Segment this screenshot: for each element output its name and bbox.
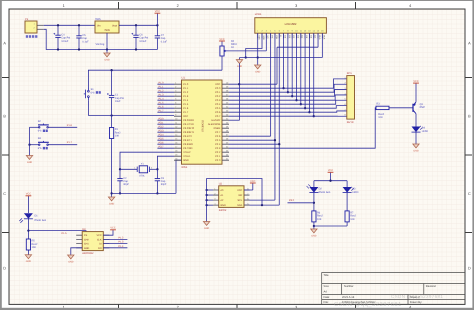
svg-text:P1.6: P1.6 bbox=[159, 105, 165, 108]
svg-text:2: 2 bbox=[151, 166, 152, 169]
svg-text:7: 7 bbox=[283, 30, 284, 33]
svg-text:WP: WP bbox=[238, 194, 242, 197]
svg-text:P0.1: P0.1 bbox=[215, 91, 221, 94]
svg-text:6*6: 6*6 bbox=[91, 91, 95, 94]
node P3.3 bbox=[159, 129, 165, 132]
wire VCC rail reset bbox=[88, 69, 222, 87]
wire 24C02 address pins to ground bbox=[205, 189, 213, 222]
svg-text:VCC: VCC bbox=[250, 180, 255, 183]
wire LCD E / 24C02 SDA bbox=[229, 33, 280, 206]
svg-text:4: 4 bbox=[409, 4, 411, 8]
svg-text:ALE/PROG: ALE/PROG bbox=[208, 123, 221, 126]
power VCC 24C02 bbox=[250, 180, 256, 183]
svg-text:Drawn By:: Drawn By: bbox=[410, 301, 423, 304]
wire net P3.1 bbox=[157, 123, 174, 125]
svg-text:33: 33 bbox=[226, 110, 228, 113]
svg-text:31: 31 bbox=[226, 118, 228, 121]
svg-text:File:: File: bbox=[324, 301, 329, 304]
wire 24C02 VCC bbox=[244, 183, 253, 190]
LED D4 bbox=[412, 126, 429, 133]
svg-text:10K: 10K bbox=[115, 135, 120, 138]
MCU part name vertical text bbox=[202, 119, 205, 131]
svg-text:9: 9 bbox=[175, 114, 176, 117]
node P3.2 bbox=[289, 199, 295, 202]
wire Q1 collector to LED bbox=[415, 114, 417, 127]
svg-text:GND: GND bbox=[255, 70, 260, 73]
svg-text:P3.6/WR: P3.6/WR bbox=[183, 143, 193, 146]
wire net P3.3 bbox=[157, 131, 174, 133]
svg-text:15: 15 bbox=[317, 30, 319, 33]
svg-text:EA/VPP: EA/VPP bbox=[211, 119, 220, 122]
LCD connector LCD1 LCD1602 bbox=[255, 13, 327, 40]
svg-text:ADC0832: ADC0832 bbox=[82, 252, 94, 255]
resistor R3 bbox=[376, 103, 389, 119]
svg-text:P1.4: P1.4 bbox=[118, 245, 124, 248]
title block bbox=[322, 272, 465, 304]
wire S1 to RST rail bbox=[88, 100, 174, 116]
svg-text:15: 15 bbox=[175, 138, 177, 141]
svg-text:P1.6: P1.6 bbox=[67, 124, 73, 127]
svg-text:VCC: VCC bbox=[219, 38, 224, 41]
svg-text:26: 26 bbox=[226, 138, 228, 141]
svg-text:P3.0/RXD: P3.0/RXD bbox=[183, 119, 194, 122]
wire net P1.6 bbox=[157, 107, 174, 109]
wire P1 to regulator input rail bbox=[44, 24, 95, 26]
svg-text:P1.0: P1.0 bbox=[159, 81, 165, 84]
wire regulator output rail bbox=[119, 24, 159, 26]
wire R1 to ground bbox=[110, 116, 112, 198]
node P1.7 bbox=[159, 109, 165, 112]
wire P0.2 to key pin 3 bbox=[229, 90, 347, 97]
wire LCD BLK to ground bbox=[240, 33, 323, 59]
wire ADC CLK bbox=[103, 238, 127, 240]
wire D1 to ADC CS bbox=[27, 219, 86, 239]
svg-text:P1.6: P1.6 bbox=[183, 107, 189, 110]
svg-text:1: 1 bbox=[257, 30, 258, 33]
wire LCD VO to pot bbox=[228, 33, 267, 51]
wire VCC rail sensors bbox=[314, 172, 347, 182]
power VCC photo sensor bbox=[26, 193, 32, 196]
svg-text:P3.1/TXD: P3.1/TXD bbox=[183, 123, 194, 126]
svg-text:P0.0: P0.0 bbox=[215, 87, 221, 90]
ground reset bbox=[108, 197, 114, 205]
capacitor C4 bbox=[53, 33, 70, 43]
svg-text:7805: 7805 bbox=[95, 18, 101, 21]
svg-text:P3.7/RD: P3.7/RD bbox=[183, 147, 192, 150]
svg-text:PNP: PNP bbox=[420, 106, 425, 109]
wire net P1.7 bbox=[157, 111, 174, 113]
svg-text:30pF: 30pF bbox=[161, 183, 167, 186]
svg-text:B: B bbox=[468, 115, 471, 119]
svg-text:1: 1 bbox=[175, 82, 176, 85]
node P1.1 bbox=[159, 85, 165, 88]
power VCC main bbox=[155, 10, 161, 13]
svg-text:U2: U2 bbox=[219, 182, 223, 185]
svg-text:VCC: VCC bbox=[155, 10, 160, 13]
wire C5 bbox=[78, 24, 80, 50]
node P1.4 bbox=[159, 97, 165, 100]
wire ADC DI bbox=[103, 243, 127, 245]
wire LED D4 to ground bbox=[415, 132, 417, 144]
svg-text:Title: Title bbox=[324, 274, 329, 277]
svg-text:LED0: LED0 bbox=[422, 130, 429, 133]
svg-text:5: 5 bbox=[274, 30, 275, 33]
wire MCU VCC pin bbox=[229, 83, 277, 85]
wire LCD D4 to P0.4 bbox=[300, 33, 302, 105]
regulator U1 7805 bbox=[95, 18, 119, 46]
svg-text:12: 12 bbox=[304, 30, 306, 33]
wire net P1.1 bbox=[157, 87, 174, 89]
svg-text:DI: DI bbox=[99, 243, 102, 246]
wire XTAL2 bbox=[119, 152, 174, 170]
node P3.7 bbox=[159, 145, 165, 148]
svg-text:P1.5: P1.5 bbox=[62, 232, 68, 235]
wire Q1 base drive from P2.3 bbox=[229, 108, 376, 148]
wire crystal ground rail bbox=[112, 192, 176, 194]
ground sensors bbox=[311, 229, 317, 237]
svg-text:P1.3: P1.3 bbox=[118, 241, 124, 244]
node P3.0 bbox=[159, 117, 165, 120]
svg-text:P3.0: P3.0 bbox=[159, 117, 165, 120]
node P1.7 bbox=[67, 141, 73, 144]
wire R6 to ground rail bbox=[313, 222, 347, 229]
ADC U3 ADC0832 bbox=[76, 228, 109, 255]
svg-text:P1.2: P1.2 bbox=[159, 89, 165, 92]
svg-text:10K: 10K bbox=[317, 218, 322, 221]
svg-text:2023-5-18: 2023-5-18 bbox=[342, 296, 355, 299]
LED D3 bbox=[343, 181, 359, 194]
wire P0.7 to key pin 8 bbox=[229, 115, 347, 117]
svg-text:2: 2 bbox=[175, 86, 176, 89]
svg-text:30pF: 30pF bbox=[123, 183, 129, 186]
svg-text:1K: 1K bbox=[231, 46, 234, 49]
svg-text:CS: CS bbox=[84, 234, 88, 237]
wire C7 bbox=[156, 25, 158, 49]
ground LCD backlight bbox=[236, 60, 242, 68]
svg-text:CH0: CH0 bbox=[84, 238, 89, 241]
wire buttons ground rail bbox=[29, 127, 31, 155]
node P1.0 bbox=[159, 81, 165, 84]
svg-text:LED0: LED0 bbox=[352, 191, 359, 194]
connector P1 bbox=[25, 18, 44, 38]
svg-text:18: 18 bbox=[175, 150, 177, 153]
svg-text:P3.4: P3.4 bbox=[159, 133, 165, 136]
svg-text:25: 25 bbox=[226, 142, 228, 145]
svg-text:7805: 7805 bbox=[104, 29, 110, 32]
capacitor C1 bbox=[107, 93, 124, 103]
svg-text:24C02: 24C02 bbox=[219, 209, 227, 212]
svg-text:22: 22 bbox=[226, 154, 228, 157]
wire S2 to net P1.6 bbox=[30, 126, 78, 128]
svg-text:GND: GND bbox=[204, 227, 209, 230]
svg-text:GND: GND bbox=[104, 58, 109, 61]
wire D2 to node P3.2 bbox=[288, 193, 316, 211]
power VCC sensors bbox=[328, 169, 334, 172]
svg-text:10: 10 bbox=[175, 118, 177, 121]
svg-text:P2.5: P2.5 bbox=[215, 139, 221, 142]
svg-text:PSEN: PSEN bbox=[214, 127, 221, 130]
svg-text:7: 7 bbox=[175, 106, 176, 109]
wire ADC DO bbox=[103, 247, 127, 249]
svg-text:SDA: SDA bbox=[237, 204, 242, 207]
svg-text:P2.4: P2.4 bbox=[215, 143, 221, 146]
capacitor C5 bbox=[76, 34, 89, 43]
svg-text:P3.2/INT0: P3.2/INT0 bbox=[183, 127, 195, 130]
svg-text:14: 14 bbox=[313, 30, 315, 33]
svg-text:0.1uF: 0.1uF bbox=[82, 40, 89, 43]
svg-text:1: 1 bbox=[63, 4, 65, 8]
svg-text:34: 34 bbox=[226, 106, 228, 109]
capacitor C7 bbox=[155, 34, 168, 43]
EEPROM U2 24C02 bbox=[213, 182, 250, 212]
wire net P3.7 bbox=[157, 147, 174, 149]
wire MCU GND pin bbox=[176, 160, 182, 193]
svg-text:P2.6: P2.6 bbox=[215, 135, 221, 138]
wire regulator ground pin bbox=[106, 33, 108, 53]
svg-text:P2.1: P2.1 bbox=[215, 155, 221, 158]
wire EA tie to VCC bbox=[229, 64, 240, 121]
svg-text:28: 28 bbox=[226, 130, 228, 133]
wire LCD RS to P2.6 bbox=[229, 33, 271, 136]
svg-text:P3.6: P3.6 bbox=[159, 141, 165, 144]
svg-text:LCD1: LCD1 bbox=[255, 13, 262, 16]
svg-text:30: 30 bbox=[226, 122, 228, 125]
resistor R7 bbox=[345, 211, 357, 222]
svg-text:9: 9 bbox=[292, 30, 293, 33]
svg-text:P2.0: P2.0 bbox=[215, 159, 221, 162]
svg-text:10K: 10K bbox=[32, 246, 37, 249]
potentiometer R2 RPot 1K bbox=[220, 40, 237, 70]
wire net P1.2 bbox=[157, 91, 174, 93]
svg-text:4: 4 bbox=[345, 92, 346, 95]
wire R5 to ground bbox=[27, 250, 29, 255]
resistor R5 bbox=[26, 239, 38, 250]
svg-text:P0.5: P0.5 bbox=[215, 107, 221, 110]
svg-text:P1.2: P1.2 bbox=[183, 91, 189, 94]
wire net P1.0 bbox=[157, 83, 174, 85]
svg-text:100uF: 100uF bbox=[139, 40, 147, 43]
svg-text:27: 27 bbox=[226, 134, 228, 137]
svg-text:XTAL2: XTAL2 bbox=[183, 151, 191, 154]
wire R7 to ground rail bbox=[346, 222, 348, 226]
svg-text:38: 38 bbox=[226, 90, 228, 93]
svg-text:C: C bbox=[3, 192, 6, 196]
svg-text:1: 1 bbox=[345, 76, 346, 79]
svg-text:P1.5: P1.5 bbox=[183, 103, 189, 106]
wire C1 bbox=[111, 70, 113, 115]
svg-text:GND: GND bbox=[220, 204, 226, 207]
svg-text:0.1uF: 0.1uF bbox=[161, 40, 168, 43]
wire LCD D3 to P0.3 bbox=[295, 33, 297, 101]
svg-text:6: 6 bbox=[345, 103, 346, 106]
svg-text:XTAL: XTAL bbox=[139, 175, 145, 178]
wire net P3.0 bbox=[157, 119, 174, 121]
svg-text:29: 29 bbox=[226, 126, 228, 129]
wire VCC riser bbox=[156, 13, 158, 25]
wire LCD VSS to ground bbox=[257, 33, 259, 65]
svg-text:Vout: Vout bbox=[112, 24, 117, 27]
svg-text:P3.5: P3.5 bbox=[159, 137, 165, 140]
node P1.3 bbox=[159, 93, 165, 96]
svg-text:GND: GND bbox=[27, 161, 32, 164]
node P1.5 bbox=[159, 101, 165, 104]
MCU U1 8051 bbox=[174, 77, 229, 169]
svg-text:P3.1: P3.1 bbox=[159, 121, 165, 124]
wire C3 bbox=[156, 169, 158, 194]
svg-text:8051: 8051 bbox=[182, 166, 188, 169]
svg-text:10: 10 bbox=[295, 30, 297, 33]
svg-text:4: 4 bbox=[175, 94, 176, 97]
svg-text:2: 2 bbox=[177, 4, 179, 8]
wire XTAL1 bbox=[156, 156, 174, 170]
wire P0.3 to key pin 4 bbox=[229, 95, 347, 100]
svg-text:10K: 10K bbox=[378, 116, 383, 119]
svg-text:100uF: 100uF bbox=[61, 40, 69, 43]
node P1.2 bbox=[159, 89, 165, 92]
svg-text:A4: A4 bbox=[324, 291, 328, 294]
svg-text:U3: U3 bbox=[82, 228, 86, 231]
wire LCD D1 to P0.1 bbox=[287, 33, 289, 93]
svg-text:8: 8 bbox=[175, 110, 176, 113]
node P1.5 label on CS wire bbox=[62, 232, 68, 235]
switch S1 reset button bbox=[84, 88, 101, 101]
wire ADC GND pin bbox=[71, 248, 82, 255]
svg-text:KP1: KP1 bbox=[347, 72, 352, 75]
svg-text:P1.4: P1.4 bbox=[159, 97, 165, 100]
wire C6 bbox=[135, 25, 137, 50]
resistor R1 bbox=[110, 128, 122, 139]
power VCC Q1 bbox=[413, 80, 419, 83]
svg-text:P3.3: P3.3 bbox=[159, 129, 165, 132]
svg-text:P1.1: P1.1 bbox=[183, 87, 189, 90]
svg-text:P3.5/T1: P3.5/T1 bbox=[183, 139, 192, 142]
wire net P1.3 bbox=[157, 95, 174, 97]
svg-text:P0.3: P0.3 bbox=[215, 99, 221, 102]
svg-text:P1: P1 bbox=[25, 18, 29, 21]
svg-text:P3.7: P3.7 bbox=[159, 145, 165, 148]
svg-text:GND: GND bbox=[84, 247, 90, 250]
svg-text:P1.0: P1.0 bbox=[183, 83, 189, 86]
svg-text:6*6: 6*6 bbox=[38, 130, 42, 133]
svg-text:4: 4 bbox=[270, 30, 271, 33]
svg-text:C: C bbox=[468, 192, 471, 196]
wire R3 to base bbox=[389, 107, 413, 109]
svg-text:CSDN @qq_52397681: CSDN @qq_52397681 bbox=[391, 294, 443, 299]
svg-text:P1.2: P1.2 bbox=[118, 236, 124, 239]
svg-text:P0.4: P0.4 bbox=[215, 103, 221, 106]
svg-text:GND: GND bbox=[183, 159, 189, 162]
svg-text:CLK: CLK bbox=[97, 238, 102, 241]
svg-text:17: 17 bbox=[175, 146, 177, 149]
power VCC pot bbox=[219, 38, 225, 41]
wire VCC photodiode D1 bbox=[27, 196, 29, 213]
node P3.2 bbox=[159, 125, 165, 128]
wire net P3.6 bbox=[157, 143, 174, 145]
ground photo sensor bbox=[25, 255, 31, 263]
node P1.3 bbox=[118, 241, 124, 244]
svg-text:P3.2: P3.2 bbox=[289, 199, 295, 202]
svg-text:Photo Sen: Photo Sen bbox=[35, 219, 47, 222]
svg-text:XTAL1: XTAL1 bbox=[183, 155, 191, 158]
svg-text:CSDN @qq_52397681: CSDN @qq_52397681 bbox=[334, 301, 402, 308]
svg-text:DO: DO bbox=[98, 247, 102, 250]
svg-text:P0.2: P0.2 bbox=[215, 95, 221, 98]
wire net P3.5 bbox=[157, 139, 174, 141]
svg-text:VCC: VCC bbox=[215, 83, 220, 86]
svg-text:P1.3: P1.3 bbox=[183, 95, 189, 98]
node P3.4 bbox=[159, 133, 165, 136]
wire P0.1 to key pin 2 bbox=[229, 84, 347, 92]
svg-text:P0.7: P0.7 bbox=[215, 115, 221, 118]
svg-text:13: 13 bbox=[175, 130, 177, 133]
svg-text:Revision: Revision bbox=[426, 285, 437, 288]
svg-text:GND: GND bbox=[68, 260, 73, 263]
svg-text:16: 16 bbox=[175, 142, 177, 145]
capacitor C3 bbox=[155, 177, 167, 186]
ground key buttons bbox=[26, 156, 32, 164]
svg-text:12: 12 bbox=[175, 126, 177, 129]
svg-text:VCC: VCC bbox=[26, 193, 31, 196]
svg-text:39: 39 bbox=[226, 86, 228, 89]
svg-text:P1.3: P1.3 bbox=[159, 93, 165, 96]
svg-text:A: A bbox=[468, 42, 471, 46]
svg-text:11: 11 bbox=[300, 30, 302, 33]
svg-text:11: 11 bbox=[175, 122, 177, 125]
crystal Y1 bbox=[120, 162, 157, 177]
wire net P1.5 bbox=[157, 103, 174, 105]
capacitor C2 bbox=[117, 177, 129, 186]
svg-text:D: D bbox=[3, 267, 6, 271]
svg-text:Vin: Vin bbox=[97, 24, 101, 27]
wire P0.6 to key pin 7 bbox=[229, 111, 347, 112]
svg-text:VCC: VCC bbox=[328, 169, 333, 172]
wire C2 bbox=[119, 169, 121, 194]
watermark bbox=[334, 294, 443, 308]
svg-text:14: 14 bbox=[175, 134, 177, 137]
svg-text:24: 24 bbox=[226, 146, 228, 149]
svg-text:6: 6 bbox=[175, 102, 176, 105]
svg-text:2: 2 bbox=[345, 82, 346, 85]
ground Q1 LED bbox=[413, 144, 419, 152]
svg-text:16: 16 bbox=[321, 30, 323, 33]
svg-text:P1.7: P1.7 bbox=[67, 141, 73, 144]
svg-text:36: 36 bbox=[226, 98, 228, 101]
svg-text:SCL: SCL bbox=[238, 199, 243, 202]
svg-text:6: 6 bbox=[279, 30, 280, 33]
svg-text:6*6: 6*6 bbox=[38, 147, 42, 150]
wire P0.5 to key pin 6 bbox=[229, 106, 347, 109]
wire LCD RW / 24C02 SCL bbox=[229, 33, 276, 200]
wire net P3.4 bbox=[157, 135, 174, 137]
ground LCD VSS bbox=[255, 65, 261, 73]
svg-text:LCD1602: LCD1602 bbox=[285, 22, 297, 26]
svg-text:3: 3 bbox=[266, 30, 267, 33]
node P1.6 bbox=[159, 105, 165, 108]
svg-text:32: 32 bbox=[226, 114, 228, 117]
svg-text:VCC: VCC bbox=[413, 80, 418, 83]
svg-text:GND: GND bbox=[109, 202, 114, 205]
svg-text:19: 19 bbox=[175, 154, 177, 157]
svg-text:5: 5 bbox=[175, 98, 176, 101]
svg-text:37: 37 bbox=[226, 94, 228, 97]
svg-text:P0.6: P0.6 bbox=[215, 111, 221, 114]
wire ADC VCC pin bbox=[103, 230, 113, 235]
wire net P3.2 bbox=[157, 127, 174, 129]
wire LCD D6 to P0.6 bbox=[308, 33, 310, 113]
svg-text:20: 20 bbox=[175, 158, 177, 161]
svg-text:21: 21 bbox=[226, 158, 228, 161]
node P3.6 bbox=[159, 141, 165, 144]
